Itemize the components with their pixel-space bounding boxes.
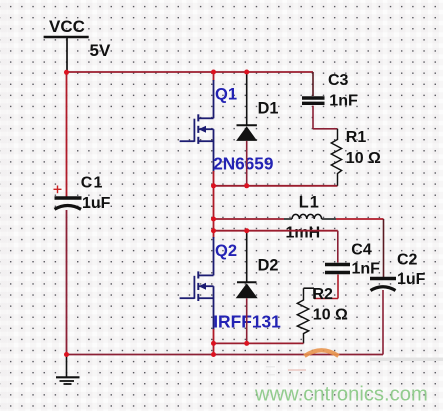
wire L1 right to C2 column bbox=[336, 218, 384, 220]
wire C4 bottom jog to R2 top bbox=[304, 275, 339, 299]
capacitor C4 bbox=[325, 265, 350, 273]
svg-text:D2: D2 bbox=[258, 257, 279, 275]
svg-text:VCC: VCC bbox=[49, 17, 85, 36]
wire Q2 drain rail (snubber tap) bbox=[214, 230, 338, 232]
svg-text:10 Ω: 10 Ω bbox=[346, 150, 381, 167]
VCC power symbol bbox=[44, 37, 89, 72]
diode D2 bbox=[236, 232, 258, 343]
svg-text:1uF: 1uF bbox=[397, 271, 426, 288]
wire L1 tap rail bbox=[214, 218, 285, 220]
junction D1 cathode bbox=[244, 70, 249, 75]
svg-text:L1: L1 bbox=[299, 194, 320, 212]
junction Q2 drain bbox=[211, 228, 216, 233]
junction Q1 source mid node bbox=[211, 183, 216, 188]
svg-text:1uF: 1uF bbox=[82, 195, 111, 212]
watermark faint small marks bbox=[266, 366, 306, 376]
svg-text:R1: R1 bbox=[346, 129, 367, 146]
junction D1 anode mid node bbox=[244, 183, 249, 188]
watermark faint grey streak bbox=[370, 358, 443, 362]
svg-text:C3: C3 bbox=[328, 72, 349, 89]
capacitor C2 (polarized) bbox=[370, 279, 396, 291]
wire top VCC rail bbox=[67, 71, 314, 73]
junction D2 cathode bbox=[244, 228, 249, 233]
capacitor C3 bbox=[302, 72, 325, 129]
wire C4 column bbox=[337, 231, 339, 263]
svg-text:C2: C2 bbox=[397, 252, 418, 269]
svg-text:C1: C1 bbox=[81, 175, 104, 192]
junction VCC left bbox=[64, 70, 69, 75]
wire left column C1 to ground rail bbox=[66, 210, 68, 355]
resistor R2 bbox=[297, 288, 308, 343]
svg-text:D1: D1 bbox=[258, 100, 279, 118]
svg-text:1mH: 1mH bbox=[286, 225, 321, 242]
svg-text:1nF: 1nF bbox=[329, 93, 358, 110]
wire bottom ground rail bbox=[67, 354, 384, 356]
C1 plus polarity mark bbox=[54, 186, 62, 194]
transistor Q2 (NMOS IRFF131) bbox=[180, 231, 214, 344]
wire C2 column bottom bbox=[382, 290, 384, 355]
wire left column VCC to C1 bbox=[66, 72, 68, 197]
svg-text:Q2: Q2 bbox=[215, 242, 237, 260]
wire middle node rail (Q1 source / D1 anode / R1 bottom) bbox=[214, 185, 338, 187]
diode D1 bbox=[236, 73, 257, 186]
junction L1 tap bbox=[211, 217, 216, 222]
svg-text:10 Ω: 10 Ω bbox=[313, 307, 348, 324]
wire Q2 source rail (to R2 bottom) bbox=[214, 342, 304, 344]
junction Q2 source bbox=[211, 341, 216, 346]
resistor R1 bbox=[331, 129, 341, 186]
transistor Q1 (NMOS 2N6659) bbox=[180, 72, 214, 186]
svg-text:Q1: Q1 bbox=[215, 86, 237, 104]
ground symbol bbox=[56, 355, 80, 385]
svg-text:5V: 5V bbox=[90, 41, 111, 60]
wire Q2 source down to ground rail bbox=[213, 343, 215, 354]
junction ground rail left bbox=[64, 352, 69, 357]
svg-text:2N6659: 2N6659 bbox=[213, 154, 273, 174]
inductor L1 bbox=[284, 214, 336, 219]
junction ground rail Q2 bbox=[211, 352, 216, 357]
svg-text:C4: C4 bbox=[351, 242, 372, 259]
wire C3 bottom to R1 top bbox=[313, 128, 338, 130]
junction Q1 drain bbox=[211, 70, 216, 75]
junction D2 anode bbox=[244, 341, 249, 346]
svg-text:1nF: 1nF bbox=[352, 260, 381, 277]
capacitor C1 (polarized) bbox=[55, 198, 82, 209]
svg-text:www.cntronics.com: www.cntronics.com bbox=[254, 384, 428, 406]
watermark orange arc bbox=[305, 350, 339, 356]
wire mid node down to L1 tap and Q2 drain bbox=[213, 186, 215, 231]
wire C2 column top bbox=[383, 219, 385, 277]
svg-text:R2: R2 bbox=[313, 286, 334, 303]
